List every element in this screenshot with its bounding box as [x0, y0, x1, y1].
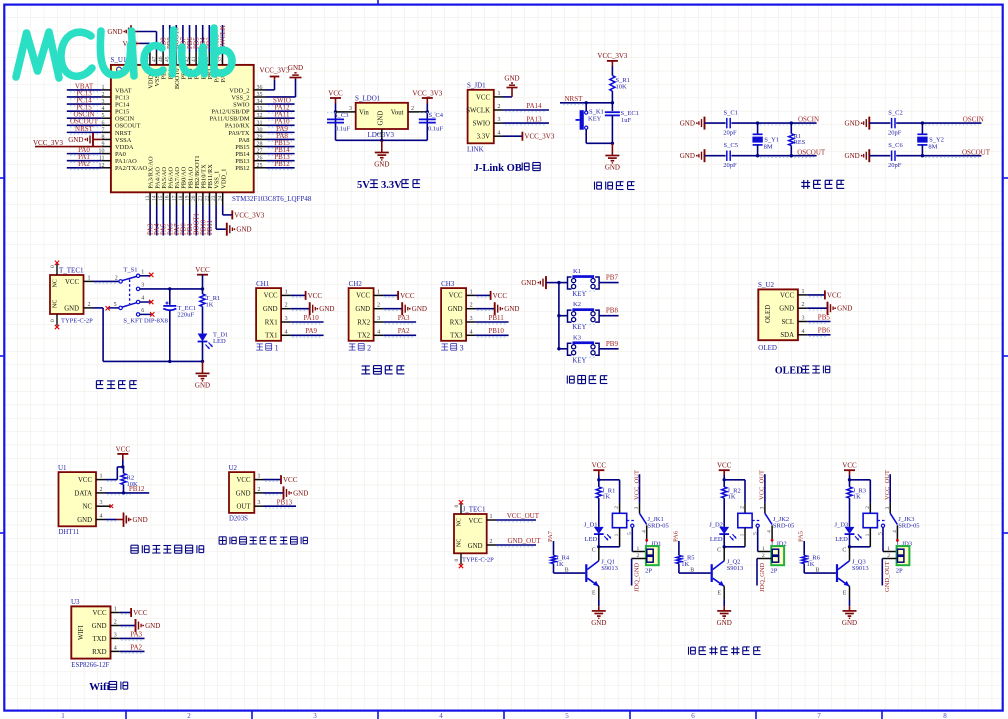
svg-text:2: 2 [100, 487, 103, 493]
sensor U2 box [229, 464, 255, 523]
svg-text:PB15: PB15 [235, 144, 249, 151]
svg-text:1: 1 [377, 289, 380, 295]
svg-text:PB9: PB9 [606, 340, 619, 348]
svg-text:RX2: RX2 [357, 319, 370, 326]
relay J_JK1 coil [599, 503, 669, 547]
title PIR module [219, 537, 307, 544]
svg-text:3: 3 [141, 282, 144, 288]
net label PB9 [578, 340, 619, 358]
svg-text:PA0: PA0 [115, 151, 126, 158]
svg-text:22: 22 [204, 195, 210, 201]
svg-text:S_Y2: S_Y2 [929, 137, 944, 144]
svg-text:VCC_3V3: VCC_3V3 [412, 90, 442, 98]
svg-text:SRD-05: SRD-05 [773, 523, 794, 530]
svg-text:47: 47 [151, 56, 157, 62]
svg-text:LED: LED [835, 536, 848, 543]
svg-text:VCC: VCC [476, 94, 490, 101]
MCU pin 46 PB9 wire and net label [158, 25, 168, 65]
svg-text:NC: NC [457, 539, 463, 547]
MCU pin 48 VDD_3 to VCC net [123, 40, 151, 65]
svg-text:1: 1 [802, 289, 805, 295]
svg-text:220uF: 220uF [177, 312, 194, 319]
power flag VCC (J_Q3 channel) [842, 462, 857, 482]
MCU pin 30 PA9 wire and net label [254, 125, 295, 134]
svg-text:PB14: PB14 [235, 151, 250, 158]
svg-text:PB8: PB8 [606, 307, 619, 315]
svg-text:20: 20 [191, 195, 197, 201]
svg-text:2: 2 [802, 302, 805, 308]
svg-text:3: 3 [885, 506, 891, 509]
D203S pin 2 to GND [254, 486, 308, 499]
svg-text:OSCOUT: OSCOUT [962, 148, 991, 156]
svg-text:6: 6 [691, 712, 695, 719]
net label OSCIN (crystal 1) [758, 115, 819, 125]
svg-text:46: 46 [158, 56, 164, 62]
svg-text:1: 1 [490, 514, 493, 520]
LED J_D1 [584, 521, 611, 548]
MCU pin 45 PB8 wire and net label [165, 25, 175, 65]
svg-text:21: 21 [198, 195, 204, 201]
resistor J_R4 [551, 554, 570, 573]
svg-text:2: 2 [88, 302, 91, 308]
D203S pin 1 to VCC [254, 474, 297, 485]
svg-text:3: 3 [285, 316, 288, 322]
MCU pin 17 PA7 wire and net label [171, 192, 181, 235]
svg-text:4: 4 [892, 530, 898, 533]
svg-text:VCC: VCC [237, 477, 251, 484]
MCU pin 4 PC15 wire and net label [67, 104, 111, 113]
wire VCC to Vin and C3 [334, 104, 337, 141]
svg-text:TX2: TX2 [358, 333, 371, 340]
WiFi pin 2 to GND [111, 619, 161, 632]
svg-text:16: 16 [165, 195, 171, 201]
svg-text:1: 1 [141, 269, 144, 275]
svg-text:VCC: VCC [78, 477, 92, 484]
svg-text:36: 36 [257, 85, 263, 91]
svg-text:1K: 1K [807, 561, 815, 568]
svg-text:VCC: VCC [780, 292, 794, 299]
LED J_D3 [835, 521, 862, 548]
MCU pin 6 OSCOUT wire and net label [67, 118, 111, 127]
title relay control circuit [689, 647, 761, 655]
svg-text:25: 25 [257, 163, 263, 169]
wire relay contact 5 to connector [878, 527, 897, 552]
svg-text:4: 4 [439, 712, 443, 719]
svg-text:CH1: CH1 [256, 280, 270, 288]
svg-text:20pF: 20pF [723, 162, 737, 169]
svg-text:5: 5 [627, 532, 633, 535]
title power circuit [96, 381, 136, 389]
svg-text:VCC: VCC [356, 293, 370, 300]
svg-text:D203S: D203S [229, 516, 248, 523]
svg-text:PA12/USB/DP: PA12/USB/DP [211, 109, 250, 116]
svg-text:STM32F103C8T6_LQFP48: STM32F103C8T6_LQFP48 [232, 195, 312, 203]
JD1 pin 4 to VCC_3V3 [494, 130, 555, 140]
svg-text:8M: 8M [928, 144, 937, 151]
svg-text:JDQ_GND: JDQ_GND [634, 562, 641, 592]
net label NRST wire [560, 95, 612, 105]
MCU pin 31 PA10 wire and net label [254, 118, 295, 127]
svg-text:PB13: PB13 [277, 498, 293, 506]
svg-text:4: 4 [114, 645, 117, 651]
svg-text:3: 3 [802, 316, 805, 322]
switch pin6 stub no-connect [140, 312, 155, 316]
svg-text:GND_OUT: GND_OUT [884, 561, 891, 592]
svg-text:2: 2 [740, 506, 746, 509]
svg-text:30: 30 [257, 127, 263, 133]
J_TEC1 pin 1 VCC_OUT [487, 512, 540, 522]
switch pin3 wire to VCC rail [140, 287, 204, 290]
ground (crystal 2 OSCIN side) [845, 117, 891, 130]
svg-text:PA3: PA3 [130, 631, 142, 639]
svg-text:VCC: VCC [328, 90, 343, 98]
MCU pin 25 PB12 wire and net label [254, 160, 295, 169]
svg-text:1: 1 [100, 474, 103, 480]
svg-text:3.3V: 3.3V [477, 134, 490, 141]
svg-text:T_S1: T_S1 [123, 267, 137, 274]
svg-text:19: 19 [185, 195, 191, 201]
svg-text:4: 4 [498, 130, 501, 136]
power flag VCC_3V3 (reset) [597, 52, 627, 66]
svg-text:Wifi: Wifi [89, 681, 110, 693]
svg-text:J-Link OB: J-Link OB [474, 163, 522, 174]
DHT11 pin 1 wire to VCC [96, 465, 125, 481]
svg-text:KEY: KEY [572, 324, 586, 331]
svg-text:GND: GND [64, 306, 79, 313]
ground (crystal 1 OSCOUT side) [680, 149, 726, 162]
svg-text:GND: GND [842, 619, 857, 627]
svg-text:26: 26 [257, 156, 263, 162]
svg-text:K3: K3 [573, 334, 581, 341]
svg-text:2: 2 [377, 303, 380, 309]
MCU pin 5 OSCIN wire and net label [67, 111, 111, 120]
svg-text:32: 32 [257, 113, 263, 119]
MCU pin 47 VSS_3 to GND symbol [107, 25, 157, 65]
svg-text:4: 4 [641, 530, 647, 533]
WiFi pin 3 to PA3 [111, 631, 145, 641]
svg-text:1: 1 [637, 546, 640, 552]
capacitor T_EC1 [163, 289, 196, 363]
svg-text:37: 37 [217, 56, 223, 62]
svg-text:TX3: TX3 [450, 333, 463, 340]
svg-text:S_U1: S_U1 [111, 56, 127, 64]
switch pin5 stub no-connect [106, 306, 119, 310]
svg-text:5: 5 [878, 532, 884, 535]
svg-text:VSS_2: VSS_2 [231, 94, 249, 101]
svg-text:LED: LED [213, 338, 226, 345]
OLED pin 3 to PB5 [798, 313, 831, 323]
T_TEC1 pin 2 GND wire [84, 302, 203, 362]
net label OSCOUT (crystal 1) [758, 148, 826, 157]
net label VCC_OUT (J_JK3) [884, 470, 891, 513]
svg-text:PB12: PB12 [129, 485, 145, 493]
svg-text:PA2: PA2 [130, 644, 142, 652]
MCU pin 3 PC14 wire and net label [67, 96, 111, 105]
svg-text:VCC_3V3: VCC_3V3 [524, 133, 554, 141]
net label VCC_OUT (J_JK2) [759, 470, 766, 513]
T_TEC1 shell pin top [50, 261, 59, 275]
MCU pin 16 PA6 wire and net label [165, 192, 175, 235]
svg-text:TXD: TXD [93, 636, 107, 643]
svg-text:SWIO: SWIO [473, 121, 490, 128]
MCU U1 pin names [115, 68, 250, 189]
svg-text:23: 23 [211, 195, 217, 201]
svg-text:GND: GND [195, 381, 210, 389]
relay J_JK3 coil [850, 503, 920, 547]
svg-text:2: 2 [498, 104, 501, 110]
svg-text:NC: NC [53, 279, 59, 287]
J_TEC1 shell pin bottom [454, 553, 463, 568]
MCU pin 38 PA15 wire and net label [211, 25, 221, 65]
connector J_JD2 2P [771, 540, 787, 574]
svg-text:E: E [717, 591, 721, 597]
svg-text:GND: GND [319, 305, 334, 313]
MCU pin 24 VDD_1 to VCC_3V3 power [218, 192, 265, 219]
svg-text:3: 3 [634, 506, 640, 509]
MCU pin 11 PA1 wire and net label [67, 153, 111, 162]
transistor J_Q2 [679, 547, 743, 587]
OLED pin 4 to PB6 [798, 327, 831, 337]
resistor J_R6 [802, 554, 821, 573]
svg-text:1: 1 [614, 533, 620, 536]
ground (power circuit) [195, 361, 210, 389]
svg-text:8M: 8M [764, 144, 773, 151]
svg-text:3: 3 [460, 344, 464, 353]
ground (crystal 2 OSCOUT side) [845, 149, 891, 162]
svg-text:S9013: S9013 [601, 565, 618, 572]
svg-text:9: 9 [102, 142, 105, 148]
svg-text:GND: GND [845, 120, 860, 128]
svg-text:2: 2 [887, 553, 890, 559]
svg-text:GND: GND [504, 75, 519, 83]
svg-text:ESP8266-12F: ESP8266-12F [71, 662, 109, 669]
svg-text:20pF: 20pF [723, 130, 737, 137]
svg-text:S9013: S9013 [727, 565, 744, 572]
crystal S_Y2 [917, 123, 944, 156]
JD1 pin 1 to GND [494, 75, 520, 98]
svg-text:2P: 2P [771, 568, 778, 575]
power flag VCC (DHT11) [116, 445, 131, 467]
svg-text:GND: GND [412, 305, 427, 313]
reset bottom wire [586, 142, 614, 145]
MCU pin 13 PA3 wire and net label [145, 192, 155, 235]
svg-text:VCC: VCC [592, 462, 607, 470]
svg-text:JDQ_GND: JDQ_GND [759, 562, 766, 592]
svg-text:VCC: VCC [449, 293, 463, 300]
CH1 pin 4 to PA9 [281, 327, 324, 337]
svg-text:J_TEC1: J_TEC1 [463, 506, 486, 514]
svg-text:PC14: PC14 [115, 101, 130, 108]
connector CH1 box [256, 280, 281, 353]
svg-text:GND: GND [77, 517, 92, 524]
svg-text:2: 2 [470, 303, 473, 309]
svg-text:T_TEC1: T_TEC1 [59, 267, 84, 275]
svg-text:3: 3 [760, 506, 766, 509]
svg-text:NC: NC [457, 518, 463, 526]
svg-text:GND: GND [374, 161, 389, 169]
transistor J_Q2 emitter wire [717, 586, 724, 606]
svg-text:2: 2 [614, 506, 620, 509]
svg-text:1K: 1K [206, 301, 214, 308]
svg-text:2: 2 [762, 553, 765, 559]
svg-text:K1: K1 [573, 268, 581, 275]
MCU pin 18 PB0 wire and net label [178, 192, 188, 235]
svg-text:4: 4 [470, 329, 473, 335]
net label PB7 [578, 274, 619, 292]
svg-text:CH3: CH3 [441, 280, 455, 288]
svg-text:27: 27 [257, 149, 263, 155]
svg-text:Vout: Vout [391, 109, 404, 116]
svg-text:3: 3 [470, 316, 473, 322]
wire S_C2 to crystal node [896, 121, 924, 124]
svg-text:GND: GND [837, 305, 852, 313]
MCU pin 34 SWIO wire and net label [254, 96, 295, 105]
svg-text:WIFI: WIFI [78, 625, 85, 640]
key K3 [559, 334, 599, 364]
transistor J_Q3 [804, 547, 868, 587]
MCU pin 10 PA0 wire and net label [67, 146, 111, 155]
J_TEC1 shell pin top [454, 500, 463, 514]
CH3 pin 3 to PB11 [466, 314, 509, 324]
svg-text:1K: 1K [602, 493, 610, 500]
svg-text:NRST: NRST [565, 95, 584, 103]
svg-text:1: 1 [285, 289, 288, 295]
svg-text:GND: GND [605, 164, 620, 172]
LDO pin 2 [408, 106, 427, 112]
svg-text:E: E [592, 591, 596, 597]
svg-text:VCC: VCC [264, 293, 278, 300]
svg-text:1: 1 [377, 133, 383, 136]
svg-text:10K: 10K [616, 84, 628, 91]
J_TEC1 pin 2 GND_OUT [487, 537, 542, 547]
capacitor S_C1 [723, 110, 738, 137]
svg-text:GND: GND [680, 120, 695, 128]
ground (keys) [521, 276, 560, 289]
svg-text:20pF: 20pF [888, 162, 902, 169]
net label OSCOUT (crystal 2) [922, 148, 990, 157]
net label PA5 wire [798, 531, 805, 555]
svg-text:GND: GND [92, 623, 107, 630]
svg-text:GND: GND [377, 111, 384, 126]
MCU pin 8 VSSA ground symbol [68, 133, 111, 146]
connector T_TEC1 box [50, 267, 93, 325]
svg-text:6: 6 [102, 120, 105, 126]
svg-text:PA11/USB/DM: PA11/USB/DM [209, 116, 249, 123]
svg-text:Vin: Vin [359, 109, 369, 116]
ground (crystal 1 OSCIN side) [680, 117, 726, 130]
transistor J_Q3 emitter wire [843, 586, 850, 606]
svg-text:SRD-05: SRD-05 [648, 523, 669, 530]
MCU pin 35 VSS_2 to GND symbol [254, 64, 303, 98]
svg-text:SWIO: SWIO [233, 101, 250, 108]
key S_K1 [576, 103, 604, 144]
svg-text:S_C5: S_C5 [724, 142, 738, 149]
svg-text:PB5: PB5 [818, 313, 831, 321]
svg-text:S_LDO1: S_LDO1 [355, 95, 381, 103]
svg-text:GND: GND [133, 516, 148, 524]
LDO U S_LDO1 box [355, 95, 408, 139]
title J-Link OB interface [474, 163, 541, 175]
MCU pin 1 VBAT wire and net label [67, 82, 111, 91]
wire connector pin 2 GND_OUT [882, 553, 896, 592]
svg-text:2: 2 [411, 106, 414, 112]
svg-text:1K: 1K [853, 493, 861, 500]
svg-text:SRD-05: SRD-05 [898, 523, 919, 530]
svg-text:VCC: VCC [493, 292, 508, 300]
svg-text:34: 34 [257, 99, 263, 105]
MCU pin 22 PB11 wire and net label [204, 192, 214, 235]
svg-text:4: 4 [802, 329, 805, 335]
power flag VCC (LDO input) [328, 90, 343, 104]
LDO pin 1 [377, 129, 383, 140]
svg-text:3: 3 [377, 316, 380, 322]
svg-text:5V: 5V [357, 180, 370, 191]
MCU pin 40 PB4 wire and net label [198, 25, 208, 65]
OLED pin 1 to VCC [798, 289, 842, 300]
svg-text:S_C2: S_C2 [888, 110, 902, 117]
svg-text:1: 1 [865, 533, 871, 536]
svg-text:1: 1 [498, 91, 501, 97]
svg-text:U1: U1 [58, 464, 67, 472]
MCU pin 37 SWCLK wire and net label [217, 25, 227, 65]
svg-text:PA9/TX: PA9/TX [228, 130, 249, 137]
CH2 pin 2 to GND [374, 302, 427, 315]
svg-text:1: 1 [102, 85, 105, 91]
svg-text:K2: K2 [573, 301, 581, 308]
T_TEC1 pin 1 VCC wire [84, 275, 119, 283]
svg-text:VCC_OUT: VCC_OUT [507, 512, 540, 520]
svg-text:2P: 2P [645, 568, 652, 575]
power flag VCC_3V3 (LDO output) [412, 90, 442, 104]
MCU pin 32 PA11 wire and net label [254, 111, 295, 120]
svg-text:B: B [816, 568, 820, 574]
svg-text:7: 7 [817, 712, 821, 719]
svg-text:OSCIN: OSCIN [115, 116, 135, 123]
svg-text:C: C [717, 548, 721, 554]
wire relay contact 5 to connector [752, 527, 771, 552]
svg-text:5: 5 [752, 532, 758, 535]
switch pin1 stub no-connect [140, 273, 154, 277]
svg-text:1: 1 [61, 712, 65, 719]
connector J_JD1 2P [645, 540, 661, 574]
svg-text:SDA: SDA [780, 332, 794, 339]
svg-text:PA10: PA10 [303, 314, 319, 322]
key K2 [559, 301, 599, 331]
svg-text:U3: U3 [71, 598, 80, 606]
svg-text:4: 4 [141, 296, 144, 302]
wire relay contact 5 to connector [627, 527, 646, 552]
svg-text:OSCIN: OSCIN [798, 115, 819, 123]
svg-text:3.3V: 3.3V [381, 180, 402, 191]
svg-text:GND: GND [145, 622, 160, 630]
svg-text:VCC_3V3: VCC_3V3 [33, 139, 63, 147]
title OLED display [775, 366, 830, 377]
svg-text:4: 4 [377, 329, 380, 335]
relay J_JK3 switch [881, 513, 898, 541]
svg-text:0: 0 [454, 559, 460, 562]
svg-text:PA2: PA2 [78, 160, 90, 168]
svg-text:B: B [690, 568, 694, 574]
WiFi pin 4 to PA2 [111, 644, 145, 654]
svg-text:PA13: PA13 [526, 115, 542, 123]
resistor R2 (pull-up) [121, 467, 138, 495]
svg-text:VCC: VCC [827, 291, 842, 299]
svg-text:PA9: PA9 [305, 327, 317, 335]
DHT11 pin 2 to PB12 [96, 485, 149, 495]
svg-text:E: E [843, 591, 847, 597]
title 5V to 3.3V circuit [357, 180, 420, 191]
svg-text:S_C6: S_C6 [888, 142, 903, 149]
